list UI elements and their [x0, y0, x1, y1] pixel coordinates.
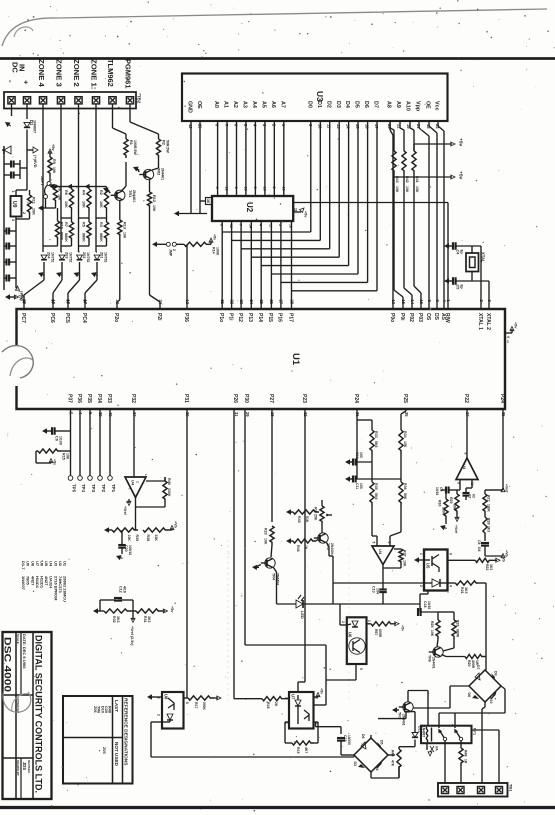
- wire zone 2: [78, 104, 80, 252]
- resistor R10 680K: [55, 221, 59, 240]
- svg-text:ZONE 3: ZONE 3: [55, 59, 64, 87]
- wire relay contacts to TB1: [444, 741, 446, 784]
- ground arrow U3: [174, 211, 179, 216]
- +Vb arrow: [485, 555, 503, 557]
- wire U7 to C19: [316, 726, 342, 728]
- +5v arrow U7: [314, 696, 319, 698]
- svg-text:600R: 600R: [378, 629, 382, 638]
- svg-text:R17: R17: [194, 702, 198, 708]
- svg-text:1: 1: [11, 191, 15, 193]
- svg-text:+Vref (2.5v): +Vref (2.5v): [130, 626, 134, 646]
- svg-text:16: 16: [262, 187, 266, 191]
- svg-text:TP1: TP1: [111, 484, 116, 493]
- svg-text:47K: 47K: [391, 760, 395, 767]
- svg-text:10K: 10K: [99, 201, 103, 208]
- svg-text:P12: P12: [237, 313, 243, 322]
- svg-text:R2: R2: [99, 190, 103, 195]
- resistor R43 10K: [393, 130, 395, 151]
- resistor R41 10K: [413, 130, 415, 151]
- svg-text:1N752: 1N752: [104, 252, 108, 262]
- scan curl line top: [2, 9, 547, 46]
- wire zone 3 to U1 pin 19: [61, 270, 63, 280]
- wire TR1 emitter to U1 pin 33: [119, 237, 121, 300]
- IC U1 Z8681 MCU: [17, 309, 506, 409]
- wire U3 A1 to U2: [226, 121, 228, 196]
- wire U3 A0 to U2: [217, 121, 219, 196]
- ref table header col: [122, 696, 124, 784]
- svg-text:R13: R13: [122, 222, 126, 229]
- capacitor C6 1/100: [42, 428, 47, 433]
- wire D1 to U9: [26, 146, 28, 190]
- svg-text:6: 6: [387, 542, 391, 544]
- svg-text:U5: U5: [426, 563, 431, 569]
- svg-text:Z05: Z05: [102, 747, 106, 754]
- svg-text:OE: OE: [206, 199, 210, 205]
- wire U2 output pin 8 to U1 pin 21: [221, 221, 223, 309]
- arrow U5 input: [414, 557, 419, 562]
- svg-text:51K: 51K: [305, 516, 309, 523]
- svg-text:R30: R30: [438, 500, 442, 506]
- svg-text:R33: R33: [374, 431, 378, 438]
- svg-text:6: 6: [449, 553, 453, 555]
- svg-text:A10: A10: [405, 101, 411, 111]
- wire junction to U5 LED: [333, 582, 424, 584]
- svg-text:A1: A1: [223, 101, 229, 108]
- zener Z02 1N752: [79, 251, 80, 253]
- arrow TR2 base: [133, 167, 139, 172]
- svg-text:D6: D6: [361, 734, 365, 739]
- svg-text:+5v: +5v: [514, 322, 518, 329]
- svg-text:+5v: +5v: [304, 211, 308, 218]
- svg-text:P25: P25: [402, 394, 408, 403]
- resistor R8 10K: [49, 184, 56, 186]
- svg-text:C19: C19: [343, 735, 347, 741]
- svg-text:C20: C20: [124, 545, 128, 552]
- wire U3 OE down: [199, 121, 201, 214]
- svg-text:1/100: 1/100: [58, 436, 62, 445]
- wire U2 output pin 7 to U1 pin 23: [240, 221, 242, 309]
- svg-text:-: -: [6, 80, 15, 83]
- svg-text:P14: P14: [257, 313, 263, 322]
- svg-text:R45: R45: [297, 516, 301, 523]
- svg-text:1: 1: [136, 481, 140, 483]
- svg-text:25: 25: [259, 300, 264, 305]
- svg-text:100/16: 100/16: [128, 545, 132, 555]
- svg-text:P1o: P1o: [218, 313, 224, 322]
- svg-text:OS: OS: [425, 313, 431, 321]
- svg-text:LED: LED: [300, 611, 305, 619]
- wire U2 output pin 18 to U1 pin 28: [291, 221, 293, 309]
- wire P26 bus: [233, 409, 235, 699]
- wire zone 2 to U1 pin 18: [79, 270, 81, 280]
- wire P32 to opamp: [133, 409, 135, 477]
- svg-text:+Vb: +Vb: [174, 521, 178, 529]
- svg-text:DATE: DEC 6 1985: DATE: DEC 6 1985: [22, 634, 27, 669]
- optocoupler U7 H11D1: [289, 692, 314, 729]
- svg-text:+Vref: +Vref: [123, 506, 127, 516]
- svg-text:10K: 10K: [32, 208, 36, 215]
- resistor R22 3K3: [448, 559, 476, 561]
- svg-text:D9: D9: [494, 671, 498, 676]
- svg-text:R18: R18: [266, 702, 270, 708]
- svg-text:XTAL 1: XTAL 1: [477, 313, 483, 330]
- svg-text:680K: 680K: [64, 233, 68, 242]
- svg-text:R25: R25: [430, 621, 434, 627]
- bus row D4 to P14: [261, 265, 348, 267]
- svg-text:D1: D1: [316, 101, 322, 108]
- svg-text:P32: P32: [130, 394, 136, 403]
- +Vref arrow U4c: [456, 514, 458, 519]
- tap 6VD diode: [27, 149, 33, 151]
- svg-text:680K: 680K: [60, 232, 64, 241]
- svg-text:D0: D0: [306, 101, 312, 108]
- filter cap C1: [4, 163, 10, 165]
- wire to opamp U4d: [371, 506, 373, 536]
- svg-text:1K: 1K: [304, 545, 308, 550]
- svg-text:(+)6VD: (+)6VD: [33, 155, 38, 168]
- svg-text:RY1: RY1: [473, 728, 477, 735]
- wire R21 to bridge: [480, 582, 486, 584]
- resistor R37 10K: [394, 548, 401, 550]
- resistor R13 10K: [118, 220, 122, 237]
- title block inner lines: [15, 632, 17, 799]
- svg-text:ZONE 1:: ZONE 1:: [90, 59, 99, 89]
- svg-text:25K: 25K: [314, 514, 318, 521]
- resistor R35 5K6: [371, 454, 373, 482]
- svg-text:6: 6: [185, 702, 189, 704]
- svg-text:D10: D10: [489, 697, 493, 703]
- svg-text:34: 34: [158, 300, 163, 305]
- svg-text:100K: 100K: [487, 504, 491, 513]
- svg-text:XTAL 2: XTAL 2: [485, 313, 491, 330]
- svg-text:C10: C10: [355, 452, 359, 458]
- wire TP5: [70, 409, 72, 476]
- jumper JMP2: [152, 242, 157, 247]
- resistor R42 10K: [403, 130, 405, 151]
- svg-text:2N4401: 2N4401: [402, 714, 406, 726]
- svg-text:C12: C12: [119, 586, 123, 593]
- +5v arrow near U2: [210, 241, 212, 245]
- wire zone 1 to U1 pin 17: [96, 270, 98, 280]
- svg-text:C11: C11: [355, 483, 359, 489]
- bus wire D6: [367, 121, 369, 282]
- svg-text:21: 21: [220, 300, 225, 305]
- resistor R57 600R: [367, 623, 372, 625]
- scan curl loop top-left: [14, 27, 33, 37]
- wire TP3: [89, 409, 91, 476]
- svg-text:26: 26: [269, 300, 274, 305]
- svg-text:20: 20: [22, 300, 27, 305]
- svg-text:P35: P35: [86, 394, 92, 403]
- svg-text:5: 5: [372, 542, 376, 544]
- svg-text:27: 27: [279, 300, 284, 305]
- svg-text:400R: 400R: [471, 660, 475, 669]
- wire TP1: [109, 409, 111, 476]
- svg-text:P0i: P0i: [399, 313, 405, 321]
- wire U3 to R42: [399, 121, 401, 128]
- svg-text:Z02: Z02: [82, 252, 86, 258]
- LED indicator: [296, 600, 303, 608]
- svg-text:+5v: +5v: [51, 144, 56, 152]
- svg-text:JMP1: JMP1: [40, 176, 44, 185]
- +5v arrow R31: [162, 610, 165, 612]
- svg-text:A6: A6: [270, 101, 276, 108]
- svg-text:C4: C4: [456, 250, 460, 256]
- svg-text:15K: 15K: [403, 441, 407, 448]
- svg-text:P31: P31: [183, 394, 189, 403]
- svg-text:1N752: 1N752: [86, 252, 90, 262]
- svg-text:TP2: TP2: [101, 484, 106, 493]
- svg-text:100K: 100K: [216, 247, 220, 256]
- wire U2 to U1 AS: [293, 202, 448, 204]
- svg-text:A4: A4: [251, 101, 257, 108]
- resistor R1 100R.5W: [124, 139, 128, 158]
- svg-text:2N4404: 2N4404: [330, 543, 334, 555]
- wire relay right pin to TB1 terminal 4: [472, 729, 500, 731]
- capacitor C4 8p: [444, 243, 449, 248]
- +Vref arrow R27: [485, 489, 503, 491]
- svg-text:6: 6: [234, 187, 238, 189]
- svg-text:R27: R27: [487, 495, 491, 501]
- svg-text:R22: R22: [485, 564, 489, 570]
- svg-text:+5v: +5v: [53, 459, 57, 465]
- svg-text:10/16: 10/16: [435, 487, 439, 495]
- bus row D7 to P17: [292, 290, 378, 292]
- resistor R9 10K: [48, 157, 52, 176]
- svg-text:R14: R14: [212, 247, 216, 254]
- resistor R40 330K: [163, 481, 167, 502]
- svg-text:TP3: TP3: [91, 484, 96, 493]
- wire U3 GND down: [190, 121, 192, 214]
- svg-text:R8: R8: [58, 186, 62, 191]
- svg-text:DIGITAL SECURITY CONTROLS LTD.: DIGITAL SECURITY CONTROLS LTD.: [34, 635, 44, 793]
- resistor R36 56K: [400, 454, 402, 482]
- svg-text:U7: U7: [291, 694, 296, 700]
- resistor R33 5K6: [371, 420, 373, 430]
- diode bridge D3 D4 D5 D6: [354, 738, 388, 772]
- svg-text:P37: P37: [66, 394, 72, 403]
- resistor R19 4K7: [285, 721, 289, 723]
- wire DC+ down: [26, 104, 28, 119]
- wire U3 A4 to U2: [254, 121, 256, 196]
- diode D12 1N4007: [404, 711, 415, 713]
- svg-text:OE: OE: [196, 101, 202, 109]
- svg-text:2: 2: [419, 585, 423, 587]
- svg-text:R40: R40: [167, 478, 171, 485]
- arrow TR1 base: [103, 188, 109, 193]
- wire bridge2 connections: [341, 754, 354, 756]
- svg-text:D5: D5: [380, 740, 384, 745]
- wire U5 to C18: [427, 591, 429, 595]
- svg-text:D5: D5: [354, 101, 360, 108]
- svg-text:TP5: TP5: [72, 484, 77, 493]
- svg-text:P26: P26: [232, 394, 238, 403]
- wire U2 output pin 3 to U1 pin 27: [280, 221, 282, 309]
- svg-text:P16: P16: [277, 313, 283, 322]
- test point TP4: [78, 476, 83, 481]
- wire P27 bus: [271, 409, 273, 522]
- bus row D3 to P13: [251, 256, 339, 258]
- svg-text:5: 5: [253, 187, 257, 189]
- svg-text:100K: 100K: [441, 507, 445, 516]
- svg-text:680R: 680R: [456, 629, 460, 638]
- wire U3 A3 to U2: [245, 121, 247, 196]
- svg-text:1N4007: 1N4007: [33, 120, 37, 133]
- svg-text:8: 8: [219, 224, 223, 226]
- svg-text:+5v: +5v: [320, 688, 324, 694]
- wire U3 to R43: [389, 121, 391, 128]
- svg-text:P24: P24: [353, 394, 359, 403]
- svg-text:R20: R20: [467, 660, 471, 666]
- svg-text:C6: C6: [55, 436, 59, 441]
- svg-text:A0: A0: [213, 101, 219, 108]
- wire U8 bottom to bus: [151, 721, 162, 723]
- svg-text:ZONE 2: ZONE 2: [72, 59, 81, 87]
- svg-text:NOT USED: NOT USED: [114, 742, 119, 766]
- resistor R3 680K: [104, 222, 108, 241]
- svg-text:U4: U4: [462, 464, 467, 470]
- capacitor C7 63: [463, 492, 470, 494]
- arrow U8 input: [147, 694, 152, 699]
- optocoupler U5 4N27: [424, 550, 448, 591]
- svg-text:P34: P34: [96, 394, 102, 403]
- svg-text:4K7: 4K7: [304, 747, 308, 753]
- svg-text:U2: U2: [245, 202, 254, 213]
- svg-text:TB2: TB2: [137, 95, 142, 104]
- wire DC- to ground: [11, 104, 13, 116]
- resistor R11 10K: [27, 195, 31, 215]
- wire TP2: [99, 409, 101, 476]
- svg-text:7: 7: [238, 224, 242, 226]
- resistor R6 10K: [69, 189, 73, 211]
- wire PGM down: [129, 104, 131, 122]
- svg-text:56K: 56K: [403, 493, 407, 500]
- svg-text:2: 2: [157, 714, 161, 716]
- arrow TR4 base: [252, 565, 257, 570]
- svg-text:10/250: 10/250: [347, 735, 351, 745]
- wire R41 to U1: [413, 177, 415, 286]
- wire XTAL1 to U1: [480, 246, 482, 309]
- svg-text:R28: R28: [487, 518, 491, 524]
- svg-text:10K: 10K: [65, 453, 69, 460]
- svg-text:A8: A8: [386, 101, 392, 108]
- wire zone 1: [95, 104, 97, 252]
- svg-text:JDS: JDS: [22, 762, 27, 770]
- bus wire D2: [329, 121, 331, 249]
- svg-text:Z04: Z04: [47, 252, 51, 259]
- svg-text:103: 103: [359, 452, 363, 458]
- svg-text:R48: R48: [464, 750, 468, 756]
- svg-text:C5: C5: [456, 285, 460, 290]
- scan curl blotch over U1 edge: [2, 346, 33, 378]
- transistor TR2 2N4401: [143, 169, 153, 179]
- TB2 terminals: [8, 97, 134, 104]
- wire r8 to zone4: [42, 186, 44, 188]
- svg-text:C13: C13: [372, 586, 376, 593]
- svg-text:R1: R1: [129, 140, 133, 146]
- diode D1: [24, 122, 30, 127]
- bottom border line: [0, 806, 555, 809]
- svg-text:R38: R38: [146, 535, 150, 542]
- test point TP5: [68, 476, 73, 481]
- svg-text:10K: 10K: [58, 194, 62, 201]
- relay RY1: [421, 726, 472, 744]
- wire P30 bus: [244, 409, 246, 645]
- resistor R7 680K: [69, 222, 73, 241]
- svg-text:3K3: 3K3: [489, 564, 493, 570]
- svg-text:+5v: +5v: [401, 625, 405, 631]
- wire P24 down: [356, 409, 358, 479]
- svg-text:10K: 10K: [430, 630, 434, 637]
- svg-text:15: 15: [401, 300, 406, 305]
- svg-text:15: 15: [243, 187, 247, 191]
- resistor R14 100K: [176, 243, 184, 245]
- resistor R5 680K: [87, 222, 91, 241]
- svg-text:2: 2: [172, 249, 176, 251]
- resistor R34 15K: [400, 414, 402, 430]
- svg-text:+5v: +5v: [213, 234, 217, 240]
- capacitor C13 104: [379, 588, 387, 590]
- capacitor C20 100/16: [121, 530, 123, 545]
- svg-text:Z06: Z06: [93, 706, 97, 713]
- svg-text:U4: U4: [131, 480, 136, 486]
- svg-text:4/16: 4/16: [122, 586, 126, 593]
- bus row D2 to P12: [241, 248, 330, 250]
- svg-text:3K3: 3K3: [464, 587, 468, 593]
- zener Z03 1N752: [61, 251, 62, 253]
- svg-text:5K6: 5K6: [374, 493, 378, 499]
- svg-text:GND: GND: [187, 101, 193, 113]
- U1 Vcc +5v: [505, 332, 512, 334]
- svg-text:10K: 10K: [64, 201, 68, 208]
- svg-text:22: 22: [229, 300, 234, 305]
- svg-text:500K: 500K: [202, 702, 206, 711]
- svg-text:TR6: TR6: [428, 655, 432, 662]
- svg-text:8p: 8p: [459, 285, 463, 289]
- svg-text:10K: 10K: [405, 186, 409, 193]
- wire TP4: [79, 409, 81, 476]
- svg-text:+: +: [22, 80, 31, 85]
- svg-text:TB1: TB1: [509, 784, 514, 792]
- svg-text:P36: P36: [76, 394, 82, 403]
- crystal XTAL: [466, 253, 479, 272]
- svg-text:PC7: PC7: [20, 313, 26, 323]
- Vref arrow U4:1: [128, 499, 130, 503]
- resistor R25 10K: [437, 612, 439, 620]
- svg-text:P33: P33: [106, 394, 112, 403]
- +Vref arrow: [132, 611, 134, 620]
- svg-text:104: 104: [376, 588, 380, 594]
- svg-text:1R: 1R: [464, 759, 468, 764]
- svg-text:5: 5: [359, 668, 363, 670]
- svg-text:13: 13: [391, 300, 396, 305]
- wire U2 output pin 4 to U1 pin 25: [260, 221, 262, 309]
- svg-text:cc: cc: [506, 340, 510, 344]
- wire TR2 emitter to U1: [149, 208, 151, 295]
- svg-text:10K: 10K: [152, 205, 156, 212]
- svg-text:16: 16: [419, 300, 424, 305]
- svg-text:U4: U4: [378, 549, 383, 555]
- svg-text:10K: 10K: [415, 186, 419, 193]
- bus wire D5: [357, 121, 359, 274]
- feedback wire U4:1: [164, 502, 166, 507]
- optocoupler U6 H11D1: [347, 617, 367, 664]
- wire U1 P36 to jumper line: [186, 244, 188, 309]
- svg-text:10K: 10K: [395, 186, 399, 193]
- svg-text:56R.5W: 56R.5W: [165, 140, 169, 153]
- svg-text:P13: P13: [247, 313, 253, 322]
- wire TR5 emitter to junction: [327, 543, 330, 548]
